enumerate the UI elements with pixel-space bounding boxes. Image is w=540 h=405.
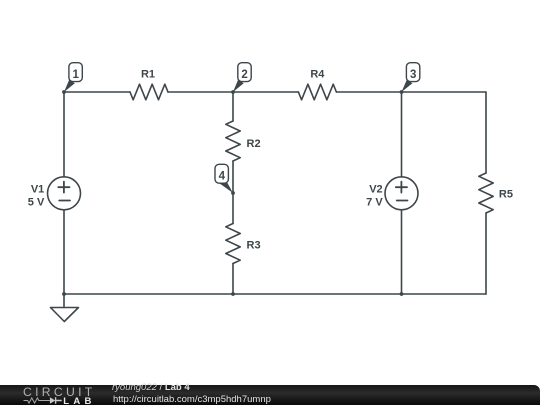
footer credit line (112, 383, 190, 393)
wire V2 bottom lead (401, 210, 403, 294)
footer url (113, 395, 271, 405)
footer bar (0, 385, 540, 405)
wire V2 top lead (401, 92, 403, 177)
svg-text:R3: R3 (247, 239, 261, 251)
CircuitLab logo wordmark (23, 385, 103, 399)
resistor R1 (130, 84, 168, 100)
ground (51, 308, 79, 322)
resistor R5 (479, 173, 493, 213)
wire top segment R1-node2 (168, 91, 298, 93)
wire top segment R4-right corner (336, 91, 486, 93)
svg-text:R5: R5 (499, 189, 513, 201)
CircuitLab logo resistor-diode-LAB row (0, 385, 100, 405)
svg-text:V2: V2 (369, 183, 382, 195)
wire R2 top lead (232, 92, 234, 121)
resistor R3 (226, 224, 240, 264)
svg-text:R4: R4 (310, 69, 325, 81)
logo resistor squiggle (24, 398, 50, 403)
voltage source V1 (48, 177, 81, 210)
junction node 2 (231, 90, 235, 94)
wire node4-R3 (232, 193, 234, 224)
svg-text:3: 3 (410, 69, 416, 81)
wire bottom (64, 293, 486, 295)
wire right branch upper (485, 92, 487, 173)
voltage source V2 (385, 177, 418, 210)
junction ground (62, 292, 66, 296)
junction node 1 (62, 90, 66, 94)
junction V2 bottom (400, 292, 404, 296)
node flag 1 (64, 63, 82, 92)
logo diode (50, 397, 55, 403)
wire V1 bottom lead (63, 210, 65, 294)
svg-text:5 V: 5 V (28, 196, 45, 208)
svg-text:R2: R2 (247, 138, 261, 150)
svg-text:R1: R1 (141, 69, 155, 81)
junction R3 bottom (231, 292, 235, 296)
wire R2-node4 (232, 161, 234, 193)
node flag 2 (233, 63, 251, 92)
wire V1 top lead (63, 92, 65, 177)
junction node 4 (231, 191, 235, 195)
wire right branch lower (485, 213, 487, 294)
svg-text:1: 1 (72, 69, 79, 81)
svg-text:7 V: 7 V (366, 196, 383, 208)
svg-text:2: 2 (241, 69, 247, 81)
resistor R2 (226, 121, 240, 161)
node flag 3 (402, 63, 420, 92)
ground stub (63, 294, 65, 308)
svg-text:V1: V1 (31, 183, 44, 195)
junction node 3 (400, 90, 404, 94)
wire R3 bottom lead (232, 264, 234, 295)
svg-text:4: 4 (219, 171, 226, 183)
resistor R4 (298, 84, 336, 100)
svg-text:LAB: LAB (63, 396, 95, 405)
wire top segment node1-R1 (64, 91, 130, 93)
node flag 4 (215, 164, 233, 193)
